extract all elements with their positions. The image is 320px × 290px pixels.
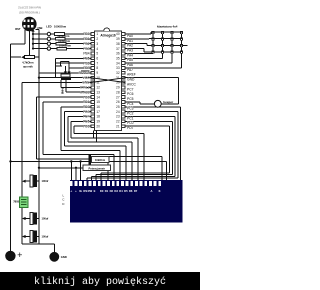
- svg-text:D6: D6: [129, 189, 133, 193]
- svg-text:PB4: PB4: [83, 52, 89, 56]
- svg-text:PA6: PA6: [127, 63, 133, 67]
- svg-text:20: 20: [96, 124, 100, 128]
- svg-text:36: 36: [116, 52, 120, 56]
- svg-text:PC6: PC6: [127, 92, 134, 96]
- svg-text:PB7: PB7: [83, 66, 89, 70]
- svg-text:7: 7: [96, 61, 98, 65]
- svg-text:1000Ohm: 1000Ohm: [57, 34, 70, 38]
- svg-text:9: 9: [96, 71, 98, 75]
- svg-text:GND: GND: [127, 78, 135, 82]
- svg-text:PA0: PA0: [127, 34, 133, 38]
- svg-text:PC7: PC7: [127, 87, 134, 91]
- svg-text:10: 10: [96, 76, 100, 80]
- svg-text:beeper: beeper: [163, 100, 174, 104]
- svg-text:23: 23: [116, 115, 120, 119]
- svg-text:1000Ohm: 1000Ohm: [58, 39, 71, 43]
- svg-text:24: 24: [116, 110, 120, 114]
- svg-text:17: 17: [96, 110, 100, 114]
- svg-text:E: E: [94, 189, 96, 193]
- svg-text:33: 33: [116, 66, 120, 70]
- svg-text:Vo: Vo: [79, 189, 83, 193]
- svg-text:kliknij aby powiększyć: kliknij aby powiększyć: [34, 276, 166, 288]
- svg-text:14: 14: [96, 95, 100, 99]
- svg-text:USB: USB: [37, 26, 43, 30]
- svg-text:VCC: VCC: [83, 76, 91, 80]
- svg-text:PA2: PA2: [127, 44, 133, 48]
- svg-text:35: 35: [116, 56, 120, 60]
- svg-text:22: 22: [116, 120, 120, 124]
- svg-text:100nf: 100nf: [42, 179, 49, 183]
- svg-text:opornik: opornik: [23, 65, 33, 69]
- svg-text:PB5: PB5: [83, 56, 89, 60]
- svg-text:Potencjometr: Potencjometr: [88, 166, 105, 170]
- svg-text:38: 38: [116, 42, 120, 46]
- svg-text:RW: RW: [88, 189, 93, 193]
- svg-text:19: 19: [96, 120, 100, 124]
- svg-text:XTAL1: XTAL1: [80, 90, 90, 94]
- svg-text:D2: D2: [110, 189, 114, 193]
- svg-text:PA1: PA1: [127, 39, 133, 43]
- svg-text:PC0: PC0: [127, 121, 134, 125]
- svg-text:+: +: [17, 250, 22, 260]
- svg-text:PB1: PB1: [83, 37, 89, 41]
- svg-text:PD2: PD2: [83, 105, 90, 109]
- svg-text:PC5: PC5: [127, 97, 134, 101]
- svg-text:AREF: AREF: [127, 73, 136, 77]
- svg-text:GND: GND: [82, 81, 90, 85]
- svg-text:PC4: PC4: [127, 102, 134, 106]
- svg-text:1: 1: [96, 32, 98, 36]
- svg-text:PD3: PD3: [83, 110, 90, 114]
- svg-text:D5: D5: [124, 189, 128, 193]
- svg-text:ZŁĄCZE DIN 6-PIN: ZŁĄCZE DIN 6-PIN: [18, 6, 41, 10]
- svg-text:29: 29: [116, 86, 120, 90]
- svg-text:6: 6: [96, 56, 98, 60]
- svg-text:3: 3: [96, 42, 98, 46]
- svg-text:D4: D4: [119, 189, 123, 193]
- svg-text:26: 26: [116, 100, 120, 104]
- svg-text:PC2: PC2: [127, 112, 134, 116]
- svg-text:18: 18: [96, 115, 100, 119]
- svg-text:PD5: PD5: [83, 120, 90, 124]
- svg-text:PB2: PB2: [83, 42, 89, 46]
- svg-text:7805: 7805: [13, 200, 19, 204]
- svg-text:PD7: PD7: [127, 126, 134, 130]
- svg-text:25: 25: [116, 105, 120, 109]
- svg-text:PD4: PD4: [83, 115, 90, 119]
- svg-text:RST: RST: [15, 27, 21, 31]
- svg-text:12: 12: [96, 86, 100, 90]
- svg-text:39: 39: [116, 37, 120, 41]
- svg-text:K: K: [159, 189, 161, 193]
- svg-text:LED: LED: [46, 24, 51, 28]
- svg-text:RESET: RESET: [79, 71, 90, 75]
- svg-text:21: 21: [116, 124, 120, 128]
- svg-text:37: 37: [116, 47, 120, 51]
- svg-text:34: 34: [116, 61, 120, 65]
- svg-text:1000Ohm: 1000Ohm: [59, 44, 72, 48]
- svg-text:100uf: 100uf: [42, 217, 49, 221]
- svg-text:5: 5: [96, 52, 98, 56]
- svg-text:31: 31: [116, 76, 120, 80]
- svg-text:AVCC: AVCC: [127, 82, 137, 86]
- svg-text:PB6: PB6: [83, 61, 89, 65]
- svg-text:PB0: PB0: [83, 32, 89, 36]
- svg-text:4,7kOhm: 4,7kOhm: [22, 61, 34, 65]
- svg-text:PA5: PA5: [127, 58, 133, 62]
- svg-text:16: 16: [96, 105, 100, 109]
- svg-text:PA7: PA7: [127, 68, 133, 72]
- svg-text:klawiatura 4x4: klawiatura 4x4: [157, 25, 178, 29]
- svg-text:4: 4: [96, 47, 98, 51]
- svg-text:(DO PROGRAM.): (DO PROGRAM.): [19, 10, 40, 14]
- svg-text:28: 28: [116, 90, 120, 94]
- svg-text:D0: D0: [100, 189, 104, 193]
- svg-text:15: 15: [96, 100, 100, 104]
- svg-text:PA4: PA4: [127, 53, 133, 57]
- svg-text:8: 8: [96, 66, 98, 70]
- svg-text:D7: D7: [134, 189, 138, 193]
- svg-text:32: 32: [116, 71, 120, 75]
- svg-text:13: 13: [96, 90, 100, 94]
- svg-text:27: 27: [116, 95, 120, 99]
- svg-text:40: 40: [116, 32, 120, 36]
- svg-text:PD0: PD0: [83, 95, 90, 99]
- svg-text:2: 2: [96, 37, 98, 41]
- svg-text:PC3: PC3: [127, 107, 134, 111]
- svg-text:A: A: [151, 189, 153, 193]
- svg-text:100uf: 100uf: [42, 235, 49, 239]
- svg-text:PD1: PD1: [83, 100, 90, 104]
- svg-text:Atmega16: Atmega16: [100, 34, 115, 38]
- svg-text:XTAL2: XTAL2: [80, 86, 90, 90]
- svg-text:PA3: PA3: [127, 48, 133, 52]
- svg-text:30: 30: [116, 81, 120, 85]
- svg-text:11: 11: [96, 81, 100, 85]
- svg-text:D1: D1: [105, 189, 109, 193]
- svg-text:10kOhm: 10kOhm: [95, 158, 106, 162]
- svg-text:PC1: PC1: [127, 116, 134, 120]
- svg-text:8MHz: 8MHz: [60, 87, 64, 94]
- svg-text:1000Ohm: 1000Ohm: [54, 24, 67, 28]
- svg-text:GND: GND: [61, 255, 67, 259]
- svg-text:PB3: PB3: [83, 47, 89, 51]
- svg-text:PD6: PD6: [83, 124, 90, 128]
- svg-text:D3: D3: [114, 189, 118, 193]
